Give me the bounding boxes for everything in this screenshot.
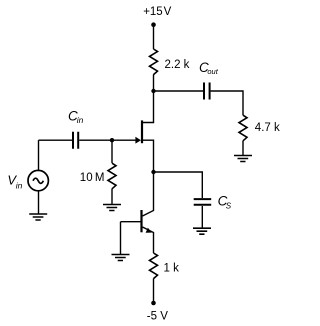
svg-text:in: in [16,181,23,191]
svg-text:V: V [164,6,172,18]
svg-text:-5 V: -5 V [147,311,168,323]
svg-text:2.2 k: 2.2 k [165,59,190,71]
svg-text:in: in [77,115,84,125]
svg-text:S: S [226,202,232,211]
svg-text:4.7 k: 4.7 k [255,122,280,134]
svg-text:M: M [95,172,105,184]
svg-text:out: out [207,67,218,76]
svg-text:+15: +15 [143,6,163,18]
svg-text:1 k: 1 k [164,262,180,274]
svg-text:10: 10 [80,172,93,184]
